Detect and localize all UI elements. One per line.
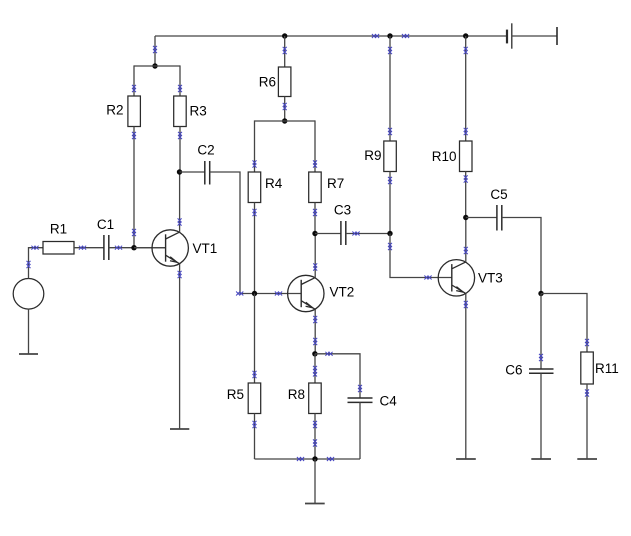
- node supply R9 branch: [387, 33, 392, 38]
- svg-text:R1: R1: [50, 222, 67, 237]
- wire R6 top lead: [283, 36, 287, 67]
- capacitor C3: [334, 203, 351, 246]
- wire R7 to C3 node: [313, 203, 317, 234]
- svg-text:R9: R9: [364, 148, 381, 163]
- node VT2 emitter junction: [312, 351, 317, 356]
- signal source G1: [13, 279, 44, 310]
- svg-text:R7: R7: [327, 176, 344, 191]
- wire source ground stem: [28, 309, 30, 354]
- wire C3 node to VT3 base: [388, 234, 452, 280]
- wire VT3 collector node to C5: [466, 217, 497, 219]
- resistor R11: [581, 352, 619, 384]
- svg-text:C4: C4: [380, 393, 398, 408]
- node VT3 collector junction: [463, 215, 468, 220]
- resistor R1: [43, 222, 74, 255]
- wire supply rail: [155, 34, 507, 38]
- wire VT2 collector to C3 node: [313, 234, 317, 278]
- node C3 right junction: [387, 231, 392, 236]
- wire R6 junction arms: [253, 120, 318, 172]
- svg-text:R10: R10: [432, 149, 457, 164]
- wire R5 to bottom rail: [253, 414, 257, 460]
- wire C5 to output node: [502, 218, 541, 294]
- wire bottom ground stem: [314, 459, 316, 504]
- wire VT3 emitter to ground: [464, 294, 468, 459]
- wire output node to R11: [541, 294, 589, 353]
- svg-text:R8: R8: [288, 387, 305, 402]
- node bottom rail junction: [312, 456, 317, 461]
- wire VT2 emitter to node: [313, 309, 317, 354]
- svg-text:VT1: VT1: [193, 241, 218, 256]
- wire VT3 collector: [464, 218, 468, 263]
- resistor R6: [259, 67, 291, 97]
- capacitor C5: [490, 187, 507, 231]
- wire R6 to lower junction: [283, 97, 287, 122]
- svg-text:C1: C1: [97, 217, 114, 232]
- svg-text:R5: R5: [227, 387, 244, 402]
- node R6 bottom junction: [282, 118, 287, 123]
- ground C6: [531, 458, 551, 460]
- ground VT1: [170, 428, 189, 430]
- capacitor C6: [505, 362, 553, 377]
- capacitor C2: [197, 143, 214, 185]
- svg-text:C6: C6: [505, 362, 522, 377]
- wire VT1 emitter to ground: [178, 264, 182, 429]
- node VT2 base junction: [252, 291, 257, 296]
- terminal post: [556, 27, 558, 45]
- svg-text:R6: R6: [259, 75, 276, 90]
- ground source: [19, 353, 38, 355]
- capacitor C4: [348, 393, 398, 408]
- resistor R4: [248, 172, 283, 203]
- ground bottom: [305, 503, 325, 505]
- resistor R2: [106, 96, 140, 127]
- wire VT1 collector to C2 node: [178, 172, 182, 232]
- node VT1 base junction: [131, 245, 136, 250]
- wire C3 node to C3: [315, 233, 341, 235]
- svg-text:VT3: VT3: [478, 271, 503, 286]
- node R2R3 junction: [152, 63, 157, 68]
- node C3 left junction: [312, 231, 317, 236]
- wire R4 to VT2 base node: [253, 203, 257, 294]
- svg-text:VT2: VT2: [330, 284, 355, 299]
- ground VT3: [456, 458, 476, 460]
- svg-text:R4: R4: [265, 176, 283, 191]
- wire R8 top lead: [313, 354, 317, 383]
- transistor VT2: [288, 275, 355, 311]
- transistor VT1: [152, 230, 217, 266]
- svg-text:R11: R11: [595, 361, 619, 376]
- svg-text:C2: C2: [197, 143, 214, 158]
- wire C2 to VT2 base: [210, 172, 302, 296]
- wire C3 to R9 node: [346, 232, 390, 236]
- resistor R10: [432, 141, 472, 172]
- capacitor C1: [97, 217, 114, 260]
- wire R11 to ground: [585, 384, 589, 459]
- wire VT1 base: [134, 247, 166, 249]
- wire R10 top lead: [464, 36, 468, 141]
- ground R11: [577, 458, 597, 460]
- wire C1 to VT1 base node: [109, 246, 166, 250]
- wire supply to R2R3 junction: [153, 36, 157, 66]
- svg-text:R2: R2: [106, 103, 123, 118]
- node supply R6 branch: [282, 33, 287, 38]
- wire bottom rail: [255, 457, 361, 461]
- svg-text:C3: C3: [334, 203, 351, 218]
- wire R2 to VT1 base node: [132, 127, 136, 248]
- wire R8 to bottom rail: [313, 414, 317, 460]
- battery GB1: [507, 23, 512, 48]
- node output junction: [538, 291, 543, 296]
- wire C2 node to C2: [180, 171, 205, 173]
- wire VT2 base node to R5: [253, 294, 257, 384]
- wire battery to terminal: [512, 35, 557, 37]
- svg-text:C5: C5: [490, 187, 507, 202]
- wire source to R1: [27, 246, 44, 279]
- resistor R3: [174, 96, 207, 127]
- resistor R8: [288, 383, 321, 414]
- wire C4 to bottom rail: [359, 402, 361, 459]
- resistor R9: [364, 141, 396, 172]
- wire R9 top lead: [388, 36, 392, 141]
- resistor R7: [309, 172, 345, 203]
- wire R3 to C2 node: [178, 127, 182, 173]
- transistor VT3: [438, 260, 503, 296]
- wire R9 to C3 node: [388, 172, 392, 234]
- node C2 junction: [177, 169, 182, 174]
- wire output node to C6: [539, 294, 543, 370]
- svg-text:R3: R3: [190, 104, 207, 119]
- wire emitter node to C4: [315, 352, 362, 398]
- wire C6 to ground: [540, 373, 542, 459]
- wire R2R3 junction arms: [132, 65, 182, 96]
- node supply R10 branch: [463, 33, 468, 38]
- wire R10 to VT3 collector node: [464, 172, 468, 218]
- resistor R5: [227, 383, 261, 414]
- wire R1 to C1: [74, 246, 104, 250]
